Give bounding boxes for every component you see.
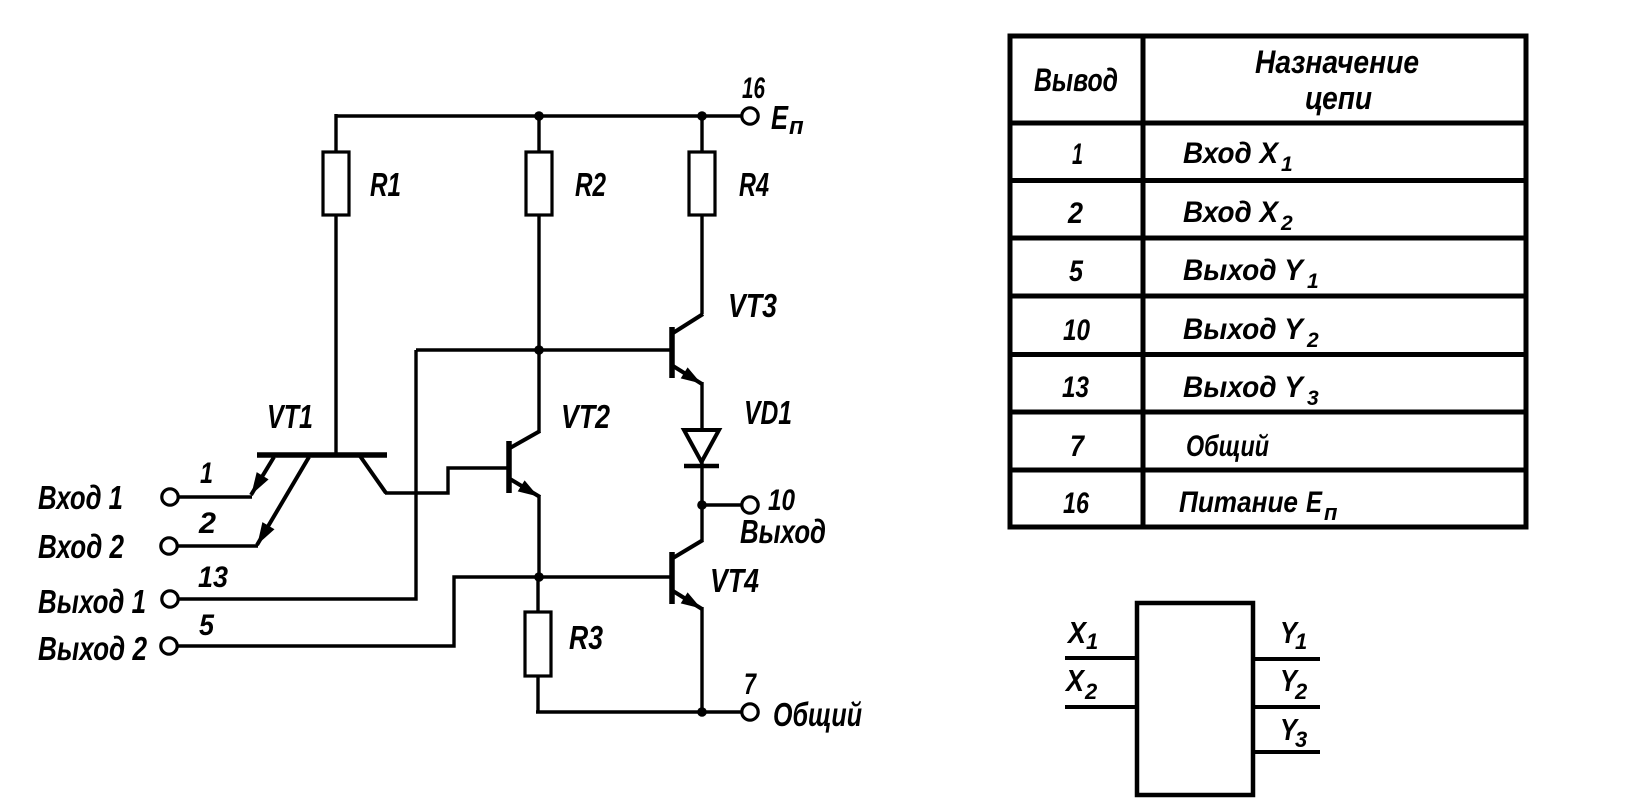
terminal: pin 10 output xyxy=(742,497,758,513)
junction dot: VT4 base node xyxy=(534,572,544,582)
svg-text:VT4: VT4 xyxy=(710,562,759,599)
svg-text:1: 1 xyxy=(1307,270,1319,293)
wire: R4 top stub xyxy=(700,116,703,152)
transistor VT4 emitter diagonal xyxy=(673,591,702,609)
junction dot: VT3 base line and R2 xyxy=(534,345,544,355)
wire: VD1 to output node xyxy=(700,462,703,506)
wire: VT3 base line xyxy=(416,348,670,351)
svg-text:7: 7 xyxy=(1070,430,1085,463)
svg-text:Выход 2: Выход 2 xyxy=(38,630,148,667)
svg-text:R3: R3 xyxy=(569,619,603,656)
svg-text:Назначение: Назначение xyxy=(1255,44,1419,80)
wire: ground rail xyxy=(536,710,741,713)
wire: VT1 collector to VT2 base xyxy=(385,468,507,493)
table: row line 4 xyxy=(1008,294,1528,299)
junction dot: output node xyxy=(697,500,707,510)
svg-text:2: 2 xyxy=(198,507,216,540)
terminal: pin 16 Ep xyxy=(742,108,758,124)
resistor R3 xyxy=(525,612,551,676)
wire: R1 top stub xyxy=(334,114,337,152)
svg-text:VT3: VT3 xyxy=(728,287,777,324)
wire: node to R3 xyxy=(536,577,539,612)
wire: output node to terminal 10 xyxy=(702,503,741,506)
svg-text:Общий: Общий xyxy=(773,696,862,733)
svg-text:2: 2 xyxy=(1306,329,1319,352)
svg-text:R4: R4 xyxy=(739,166,769,203)
junction dot: ground rail xyxy=(697,707,707,717)
svg-text:Общий: Общий xyxy=(1186,430,1269,463)
wire: VT4 emitter to ground rail xyxy=(700,607,703,714)
svg-text:2: 2 xyxy=(1294,679,1308,704)
wire: output node to VT4 collector xyxy=(700,505,703,541)
terminal: input 1 xyxy=(162,489,178,505)
svg-text:VT2: VT2 xyxy=(561,398,611,435)
svg-text:R2: R2 xyxy=(575,166,606,203)
table: column divider xyxy=(1141,36,1146,527)
wire: VT3 emitter to VD1 xyxy=(700,382,703,431)
block symbol: logic element body xyxy=(1137,603,1253,795)
svg-text:13: 13 xyxy=(1062,371,1089,404)
table: row line 7 xyxy=(1008,468,1528,473)
terminal: output 1 (pin 13) xyxy=(162,591,178,607)
svg-text:1: 1 xyxy=(200,457,213,490)
svg-text:1: 1 xyxy=(1295,629,1307,654)
svg-text:E: E xyxy=(1306,486,1323,519)
svg-text:Вход 1: Вход 1 xyxy=(38,479,123,516)
transistor VT4 base bar xyxy=(669,552,675,604)
transistor VT1 base bar xyxy=(257,452,387,458)
svg-text:Выход Y: Выход Y xyxy=(1183,371,1306,404)
wire: input 1 to VT1 emitter xyxy=(179,495,252,498)
wire: R2 top stub xyxy=(537,116,540,152)
table: pin assignment outer frame xyxy=(1010,36,1526,527)
svg-text:5: 5 xyxy=(1069,255,1084,288)
transistor VT1 collector diagonal xyxy=(360,456,386,493)
svg-text:3: 3 xyxy=(1307,387,1319,410)
wire: R4 down to VT3 collector xyxy=(700,215,703,314)
transistor VT3 base bar xyxy=(669,327,675,378)
svg-text:Вход X: Вход X xyxy=(1183,196,1280,229)
wire: input 2 to VT1 emitter xyxy=(178,544,258,547)
junction dot: R2 top xyxy=(534,111,544,121)
block symbol: output pin Y3 xyxy=(1253,750,1320,754)
svg-text:Выход Y: Выход Y xyxy=(1183,313,1306,346)
transistor VT4 collector diagonal xyxy=(673,540,703,558)
svg-text:2: 2 xyxy=(1067,197,1083,230)
block symbol: input pin X2 xyxy=(1065,705,1137,709)
svg-text:E: E xyxy=(771,99,789,136)
svg-text:3: 3 xyxy=(1295,727,1307,752)
svg-text:п: п xyxy=(789,113,804,140)
resistor R1 xyxy=(323,152,349,215)
terminal: pin 7 common xyxy=(742,704,758,720)
wire: R2 down to VT2 collector xyxy=(537,215,540,433)
transistor VT1 emitter 2 xyxy=(257,457,309,545)
junction dot: R4 top xyxy=(697,111,707,121)
wire: top power rail xyxy=(336,114,741,117)
terminal: output 2 (pin 5) xyxy=(161,638,177,654)
svg-text:5: 5 xyxy=(199,609,215,642)
svg-text:Питание: Питание xyxy=(1179,486,1298,519)
wire: R1 to VT1 base xyxy=(334,215,337,453)
terminal: input 2 xyxy=(161,538,177,554)
wire: pin 5 to VT4 base net xyxy=(178,577,537,646)
svg-text:X: X xyxy=(1064,663,1086,698)
svg-text:цепи: цепи xyxy=(1305,80,1372,116)
svg-text:VT1: VT1 xyxy=(267,398,313,435)
svg-text:16: 16 xyxy=(1063,487,1089,520)
block symbol: output pin Y2 xyxy=(1253,705,1320,709)
wire: VT4 base line xyxy=(539,575,670,578)
table: row line 3 xyxy=(1008,236,1528,241)
transistor VT1 emitter 1 xyxy=(251,457,274,495)
wire: VT2 emitter down xyxy=(537,495,540,578)
svg-text:16: 16 xyxy=(742,72,765,105)
svg-text:Вывод: Вывод xyxy=(1034,62,1118,98)
table: row line 5 xyxy=(1008,352,1528,357)
svg-text:10: 10 xyxy=(1063,314,1090,347)
svg-text:Выход Y: Выход Y xyxy=(1183,254,1306,287)
table: header bottom line xyxy=(1008,121,1528,126)
transistor VT2 base bar xyxy=(506,441,512,493)
resistor R4 xyxy=(689,152,715,215)
table: row line 6 xyxy=(1008,410,1528,415)
transistor VT3 emitter diagonal xyxy=(673,366,702,384)
svg-text:VD1: VD1 xyxy=(744,394,792,431)
svg-text:Вход 2: Вход 2 xyxy=(38,528,125,565)
svg-text:7: 7 xyxy=(744,668,757,701)
svg-text:R1: R1 xyxy=(370,166,401,203)
table: row line 2 xyxy=(1008,178,1528,183)
diode VD1 xyxy=(684,430,719,462)
svg-text:Выход: Выход xyxy=(740,513,826,550)
transistor VT3 collector diagonal xyxy=(673,314,703,333)
svg-text:2: 2 xyxy=(1280,212,1293,235)
svg-text:п: п xyxy=(1324,500,1338,525)
svg-text:X: X xyxy=(1066,615,1088,650)
block symbol: input pin X1 xyxy=(1065,656,1137,660)
svg-text:Вход X: Вход X xyxy=(1183,137,1280,170)
svg-text:2: 2 xyxy=(1084,679,1098,704)
svg-text:1: 1 xyxy=(1072,138,1083,171)
transistor VT2 emitter diagonal xyxy=(510,479,540,497)
wire: R3 to ground rail xyxy=(536,676,539,712)
svg-text:1: 1 xyxy=(1281,153,1293,176)
wire: pin 13 to VT3 base net xyxy=(179,350,416,599)
block symbol: output pin Y1 xyxy=(1253,657,1320,661)
svg-text:Выход 1: Выход 1 xyxy=(38,583,146,620)
svg-text:13: 13 xyxy=(198,561,228,594)
transistor VT2 collector diagonal xyxy=(510,431,540,448)
svg-text:1: 1 xyxy=(1086,629,1098,654)
resistor R2 xyxy=(526,152,552,215)
